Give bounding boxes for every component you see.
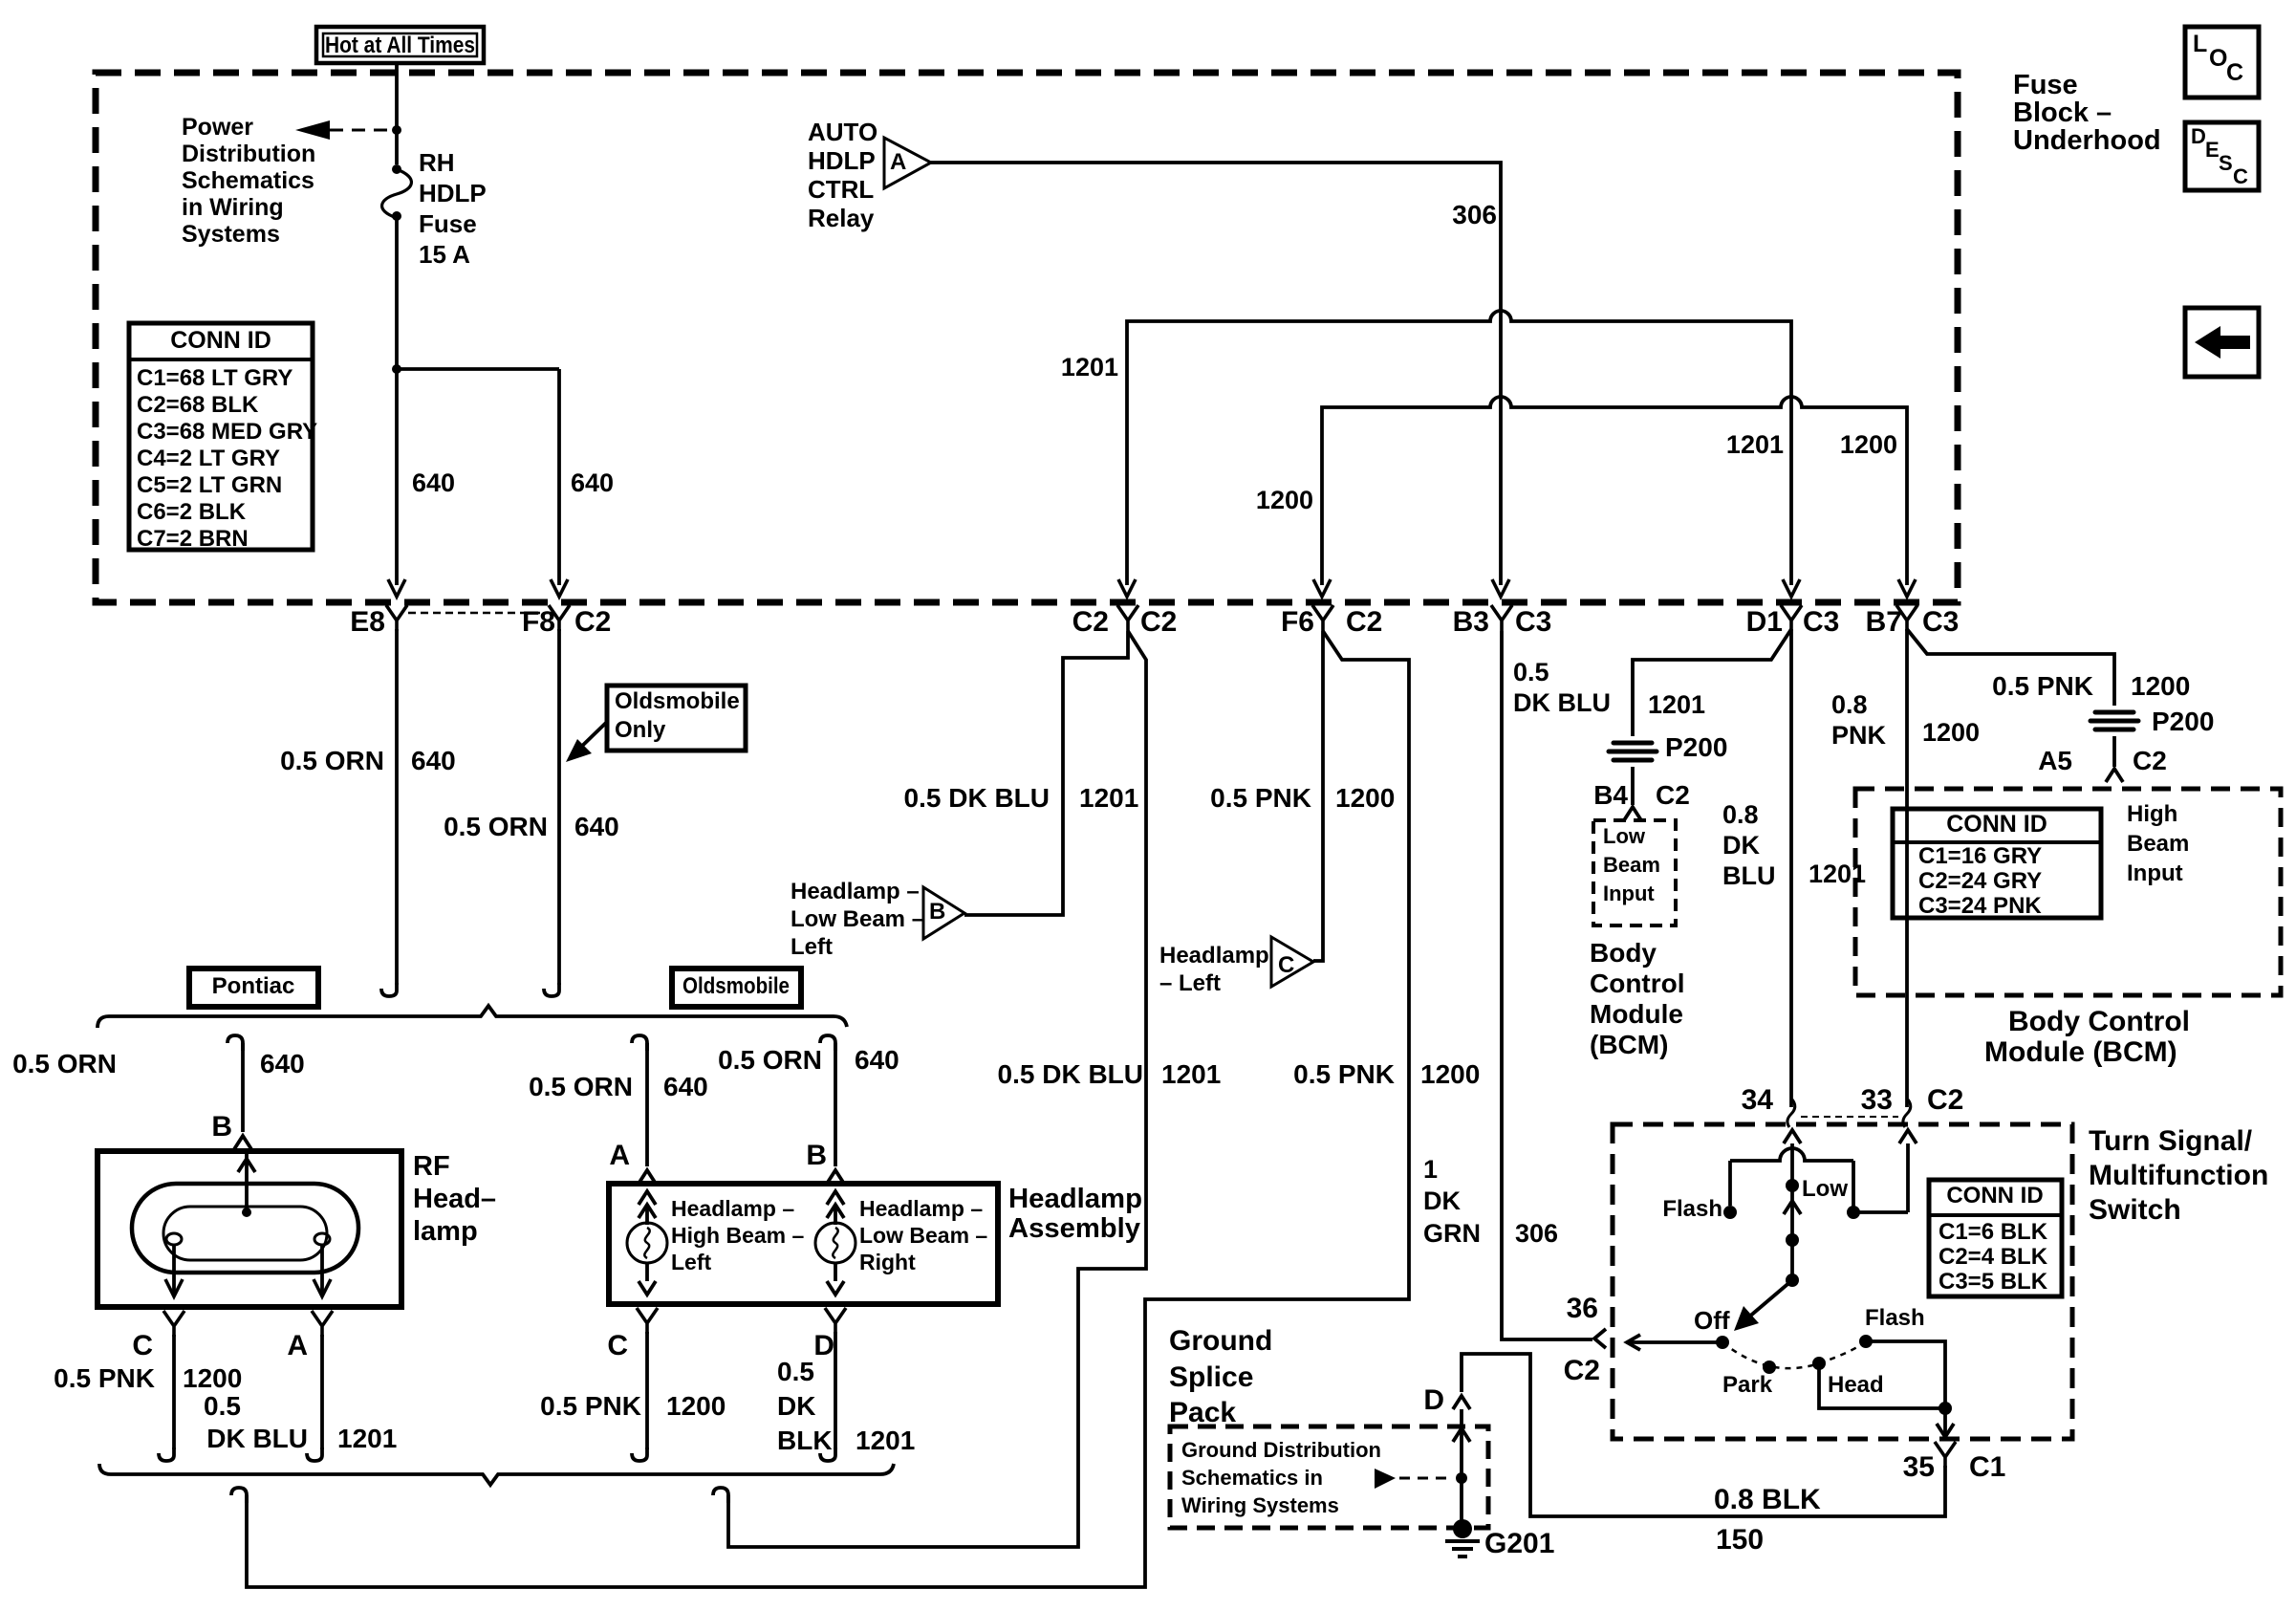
wire 640 inside fuse block (left leg) xyxy=(395,216,399,585)
svg-text:D: D xyxy=(1423,1384,1444,1416)
svg-text:Headlamp: Headlamp xyxy=(1008,1184,1142,1214)
svg-text:Distribution: Distribution xyxy=(182,141,315,167)
connector B7 | C3 xyxy=(1896,605,1917,631)
wire 0.5 PNK 1200 from assembly C xyxy=(645,1332,649,1449)
contact: Park xyxy=(1763,1361,1776,1374)
svg-text:Low Beam –: Low Beam – xyxy=(859,1223,987,1248)
reference triangle C: Headlamp - Left xyxy=(1271,937,1313,987)
svg-text:Wiring Systems: Wiring Systems xyxy=(1181,1493,1339,1517)
svg-text:Only: Only xyxy=(615,717,666,743)
svg-text:0.8: 0.8 xyxy=(1722,800,1759,829)
BCM Low Beam Input (dashed box) xyxy=(1593,820,1676,925)
svg-text:Headlamp –: Headlamp – xyxy=(859,1196,983,1221)
connector C at headlamp assembly xyxy=(637,1308,658,1334)
CONN ID table (fuse block) xyxy=(129,323,313,550)
svg-text:0.5 PNK: 0.5 PNK xyxy=(1210,783,1311,813)
wire 1201 inside fuse block xyxy=(1127,311,1791,585)
wire from Off contact to pin 36 xyxy=(1629,1340,1722,1344)
svg-text:640: 640 xyxy=(411,746,456,775)
splice brace (640 feed to Pontiac/Oldsmobile lamps) xyxy=(97,1006,847,1028)
connector A5 | C2 at BCM xyxy=(2106,769,2123,782)
wire 0.5 ORN 640 to RF headlamp B xyxy=(227,1035,243,1051)
svg-text:Underhood: Underhood xyxy=(2013,125,2161,156)
svg-text:Schematics in: Schematics in xyxy=(1181,1466,1323,1490)
svg-text:306: 306 xyxy=(1452,200,1497,229)
svg-text:C2=24 GRY: C2=24 GRY xyxy=(1918,868,2042,894)
svg-text:640: 640 xyxy=(260,1049,305,1078)
svg-text:1200: 1200 xyxy=(1256,486,1313,514)
svg-text:0.5 ORN: 0.5 ORN xyxy=(12,1049,117,1078)
svg-text:Block –: Block – xyxy=(2013,98,2112,128)
svg-text:C2: C2 xyxy=(574,606,611,638)
connector D at headlamp assembly xyxy=(825,1308,846,1334)
svg-text:0.5 ORN: 0.5 ORN xyxy=(529,1072,633,1101)
svg-text:Headlamp –: Headlamp – xyxy=(671,1196,794,1221)
splice brace (headlamp returns) xyxy=(99,1464,894,1485)
wire 0.5 DK BLU 1201 from RF headlamp A xyxy=(320,1335,324,1449)
connector B4 | C2 at BCM xyxy=(1624,807,1641,820)
wire 0.5 PNK 1200 net (F6/C2 to headlamps) xyxy=(247,631,1409,1587)
svg-text:33: 33 xyxy=(1861,1084,1893,1116)
svg-text:HDLP: HDLP xyxy=(419,179,487,207)
svg-text:RH: RH xyxy=(419,148,455,177)
svg-text:A: A xyxy=(890,149,906,175)
svg-text:0.5 DK BLU: 0.5 DK BLU xyxy=(998,1059,1143,1089)
svg-text:C2=4 BLK: C2=4 BLK xyxy=(1939,1244,2048,1270)
svg-text:Oldsmobile: Oldsmobile xyxy=(682,973,790,999)
svg-text:Fuse: Fuse xyxy=(2013,70,2078,100)
wire 0.8 BLK 150 to ground splice pack xyxy=(1462,1354,1945,1516)
wire 0.5 PNK 1200 from RF headlamp C xyxy=(172,1335,176,1449)
svg-text:640: 640 xyxy=(663,1072,708,1101)
svg-text:Headlamp –: Headlamp – xyxy=(791,879,920,904)
svg-text:1200: 1200 xyxy=(1335,783,1395,813)
svg-text:C: C xyxy=(132,1330,153,1361)
svg-text:34: 34 xyxy=(1742,1084,1774,1116)
svg-text:Hot at All Times: Hot at All Times xyxy=(325,33,475,58)
svg-text:Pontiac: Pontiac xyxy=(212,973,295,999)
svg-text:DK BLU: DK BLU xyxy=(206,1424,308,1453)
svg-text:Beam: Beam xyxy=(2127,831,2189,857)
svg-text:0.5 ORN: 0.5 ORN xyxy=(718,1045,822,1075)
svg-text:C4=2 LT GRY: C4=2 LT GRY xyxy=(137,446,280,471)
svg-text:Module: Module xyxy=(1590,999,1683,1029)
svg-text:C2: C2 xyxy=(1927,1084,1963,1116)
wire 0.5 ORN 640 to headlamp assembly B xyxy=(820,1035,835,1051)
svg-text:A5: A5 xyxy=(2038,746,2072,775)
svg-text:Pack: Pack xyxy=(1169,1397,1236,1428)
dimmer wiper arm xyxy=(1790,1186,1794,1247)
wire branch to Headlamp Low Beam Left reference xyxy=(964,631,1128,915)
svg-text:Input: Input xyxy=(2127,860,2183,886)
connector C at RF headlamp xyxy=(163,1311,184,1337)
svg-text:D1: D1 xyxy=(1746,606,1783,638)
svg-text:S: S xyxy=(2219,151,2233,175)
svg-text:– Left: – Left xyxy=(1159,970,1221,996)
svg-text:E8: E8 xyxy=(350,606,385,638)
connector pin 36 / C2 (switch) xyxy=(1594,1329,1606,1348)
connector A at RF headlamp xyxy=(312,1311,333,1337)
svg-text:C6=2 BLK: C6=2 BLK xyxy=(137,499,247,525)
dashed reference arrow (ground distribution) xyxy=(1375,1469,1396,1489)
connector B3 | C3 xyxy=(1491,605,1512,631)
dashed link between E8 and F8 terminals xyxy=(408,612,548,615)
wire 0.8 DK BLU 1201 from D1 to switch pin 34 xyxy=(1789,629,1793,1107)
svg-text:0.5 DK BLU: 0.5 DK BLU xyxy=(904,783,1050,813)
connector F6 | C2 xyxy=(1312,605,1333,631)
svg-text:CONN ID: CONN ID xyxy=(1946,811,2047,838)
svg-text:Schematics: Schematics xyxy=(182,167,314,194)
svg-text:CONN ID: CONN ID xyxy=(170,327,271,354)
svg-text:0.5: 0.5 xyxy=(1513,658,1549,686)
wire 1 DK GRN 306 from B3 to multifunction switch xyxy=(1502,631,1592,1339)
Turn Signal / Multifunction Switch (dashed box) xyxy=(1613,1124,2072,1439)
svg-text:Assembly: Assembly xyxy=(1008,1213,1140,1244)
junction at pin 33 wire xyxy=(1847,1206,1860,1219)
connector C2 | C2 xyxy=(1117,605,1138,631)
svg-text:Beam: Beam xyxy=(1603,853,1660,877)
RF headlamp dual-filament bulb (inner shell) xyxy=(163,1207,327,1260)
svg-text:F8: F8 xyxy=(522,606,555,638)
svg-text:Multifunction: Multifunction xyxy=(2089,1160,2268,1191)
switch pin 33 entry arrow xyxy=(1906,1143,1910,1212)
contact: Low xyxy=(1786,1179,1799,1192)
svg-text:C2: C2 xyxy=(1140,606,1177,638)
reference triangle B: Headlamp - Low Beam - Left xyxy=(923,887,964,939)
contact: Flash (headlamp) xyxy=(1859,1335,1873,1348)
svg-text:C2=68 BLK: C2=68 BLK xyxy=(137,392,259,418)
svg-text:1200: 1200 xyxy=(1840,430,1897,459)
svg-text:Module (BCM): Module (BCM) xyxy=(1984,1036,2177,1068)
junction node in splice pack xyxy=(1456,1472,1467,1484)
svg-text:Body Control: Body Control xyxy=(2008,1006,2190,1037)
svg-text:F6: F6 xyxy=(1281,606,1314,638)
svg-text:E: E xyxy=(2205,138,2220,162)
contact: Flash (dimmer) xyxy=(1723,1206,1737,1219)
RF headlamp feed wire + terminal arrow xyxy=(245,1151,249,1212)
svg-text:C3=68 MED GRY: C3=68 MED GRY xyxy=(137,419,317,445)
svg-text:1200: 1200 xyxy=(1922,718,1980,747)
wire from Flash contact down to pin 35 xyxy=(1866,1341,1945,1408)
svg-text:DK BLU: DK BLU xyxy=(1513,688,1611,717)
svg-text:640: 640 xyxy=(574,812,619,841)
ground wire into splice pack xyxy=(1460,1409,1463,1521)
CONN ID table (multifunction switch) xyxy=(1929,1180,2062,1296)
svg-text:HDLP: HDLP xyxy=(808,146,876,175)
svg-text:Power: Power xyxy=(182,114,253,141)
svg-text:C1=68 LT GRY: C1=68 LT GRY xyxy=(137,365,292,391)
wire 1200 inside fuse block xyxy=(1322,397,1907,585)
svg-text:C3=24 PNK: C3=24 PNK xyxy=(1918,893,2042,919)
svg-text:DK: DK xyxy=(1722,831,1760,860)
svg-text:B7: B7 xyxy=(1866,606,1902,638)
svg-text:C5=2 LT GRN: C5=2 LT GRN xyxy=(137,472,282,498)
wire 0.8 PNK 1200 from B7 to switch pin 33 xyxy=(1905,629,1909,1107)
svg-text:C2: C2 xyxy=(2133,746,2167,775)
Body Control Module BCM (dashed box) xyxy=(1855,789,2281,995)
label box: Pontiac xyxy=(189,969,318,1007)
svg-text:1200: 1200 xyxy=(666,1391,726,1421)
headlamp switch wiper arrow xyxy=(1742,1280,1792,1323)
svg-text:0.5: 0.5 xyxy=(777,1357,814,1386)
Headlamp Assembly housing box xyxy=(609,1184,998,1304)
filament terminal loop (right) xyxy=(314,1233,330,1245)
svg-text:1201: 1201 xyxy=(1648,690,1705,719)
label box: Oldsmobile xyxy=(672,969,801,1007)
wire from Head contact xyxy=(1819,1363,1945,1408)
svg-text:B: B xyxy=(929,899,945,925)
svg-text:1201: 1201 xyxy=(1161,1059,1221,1089)
wire 640 branch to F8 xyxy=(397,369,559,585)
svg-text:C2: C2 xyxy=(1346,606,1382,638)
connector pin 35 / C1 (switch) xyxy=(1935,1442,1956,1468)
svg-text:0.8: 0.8 xyxy=(1831,690,1868,719)
svg-text:Ground: Ground xyxy=(1169,1325,1272,1357)
svg-text:Park: Park xyxy=(1722,1372,1773,1398)
note box: Oldsmobile Only xyxy=(607,686,746,751)
svg-text:PNK: PNK xyxy=(1831,721,1887,750)
RF headlamp output wire C (inside box) xyxy=(172,1245,176,1296)
svg-text:B4: B4 xyxy=(1593,780,1628,810)
svg-text:P200: P200 xyxy=(2152,707,2214,736)
splice P200 (low beam) xyxy=(1609,743,1657,760)
svg-text:C: C xyxy=(1278,952,1294,978)
wire 0.5 DK BLU 1201 net (C2/C2 to headlamps) xyxy=(728,631,1146,1547)
svg-text:1200: 1200 xyxy=(2131,671,2190,701)
contact: Head xyxy=(1812,1357,1826,1370)
svg-text:Oldsmobile: Oldsmobile xyxy=(615,688,740,714)
LOC reference box xyxy=(2185,27,2259,98)
svg-text:D: D xyxy=(2191,124,2206,148)
svg-text:Low: Low xyxy=(1603,824,1646,848)
svg-text:15 A: 15 A xyxy=(419,240,470,269)
svg-text:0.5 PNK: 0.5 PNK xyxy=(1293,1059,1395,1089)
RF headlamp dual-filament bulb (outer shell) xyxy=(132,1184,358,1273)
svg-text:C3: C3 xyxy=(1922,606,1959,638)
junction node at fuse feed xyxy=(392,125,401,135)
svg-text:Head–: Head– xyxy=(413,1184,496,1214)
svg-text:0.5 PNK: 0.5 PNK xyxy=(54,1363,155,1393)
Ground Splice Pack (dashed box) xyxy=(1170,1426,1488,1528)
svg-text:150: 150 xyxy=(1716,1524,1764,1556)
svg-text:C2: C2 xyxy=(1564,1355,1600,1386)
svg-text:B: B xyxy=(806,1140,827,1171)
svg-text:B3: B3 xyxy=(1453,606,1489,638)
svg-text:Splice: Splice xyxy=(1169,1361,1253,1393)
splice P200 (high beam) xyxy=(2090,712,2138,729)
svg-text:CONN ID: CONN ID xyxy=(1946,1183,2043,1208)
svg-text:Low: Low xyxy=(1802,1176,1848,1202)
svg-text:BLU: BLU xyxy=(1722,861,1776,890)
svg-text:640: 640 xyxy=(855,1045,899,1075)
connector F8 / C2 (fuse block) xyxy=(549,605,570,631)
svg-text:35: 35 xyxy=(1903,1451,1935,1483)
wire 0.5 ORN 640 from F8 (Oldsmobile only) xyxy=(557,629,561,985)
svg-text:1200: 1200 xyxy=(183,1363,242,1393)
svg-text:Input: Input xyxy=(1603,882,1655,905)
svg-text:GRN: GRN xyxy=(1423,1219,1481,1248)
label: Hot at All Times xyxy=(316,27,484,63)
svg-text:D: D xyxy=(813,1330,834,1361)
DESC reference box xyxy=(2185,122,2259,190)
svg-text:High Beam –: High Beam – xyxy=(671,1223,805,1248)
svg-text:Off: Off xyxy=(1694,1306,1730,1335)
svg-text:P200: P200 xyxy=(1665,732,1727,762)
svg-text:C2: C2 xyxy=(1656,780,1690,810)
dashed reference arrow to power distribution xyxy=(295,120,330,140)
wire 0.5 PNK 1200 from B7 to BCM via P200 xyxy=(1907,629,2114,706)
svg-text:C1: C1 xyxy=(1969,1451,2005,1483)
svg-text:C: C xyxy=(2233,164,2248,188)
contact: Off xyxy=(1716,1336,1729,1349)
svg-text:Systems: Systems xyxy=(182,221,280,248)
svg-text:Relay: Relay xyxy=(808,204,875,232)
svg-text:(BCM): (BCM) xyxy=(1590,1030,1668,1059)
svg-text:Turn Signal/: Turn Signal/ xyxy=(2089,1125,2253,1157)
wire 306 from relay A xyxy=(931,163,1501,585)
svg-text:0.5 PNK: 0.5 PNK xyxy=(1992,671,2093,701)
svg-text:G201: G201 xyxy=(1484,1528,1554,1559)
svg-text:C3: C3 xyxy=(1803,606,1839,638)
wire 0.5 ORN 640 from E8 xyxy=(395,629,399,985)
junction node inside RF headlamp xyxy=(242,1208,251,1217)
svg-text:1: 1 xyxy=(1423,1155,1438,1184)
wire from P200 to BCM terminal B4 xyxy=(1631,767,1635,805)
svg-text:C: C xyxy=(607,1330,628,1361)
switch pin 34 entry arrow xyxy=(1790,1143,1794,1186)
svg-text:C3: C3 xyxy=(1515,606,1551,638)
svg-text:Low Beam –: Low Beam – xyxy=(791,906,924,932)
svg-text:Left: Left xyxy=(671,1250,712,1274)
fuse F: RH HDLP Fuse 15 A xyxy=(395,130,399,164)
svg-text:High: High xyxy=(2127,801,2177,827)
svg-text:Flash: Flash xyxy=(1865,1305,1925,1331)
svg-text:1201: 1201 xyxy=(1079,783,1138,813)
svg-text:L: L xyxy=(2193,31,2207,57)
wire from F6 to Headlamp Left reference xyxy=(1313,631,1323,961)
svg-text:Ground Distribution: Ground Distribution xyxy=(1181,1438,1381,1462)
svg-text:Right: Right xyxy=(859,1250,916,1274)
back-arrow reference box xyxy=(2185,308,2259,377)
svg-text:Control: Control xyxy=(1590,969,1685,998)
svg-text:36: 36 xyxy=(1567,1293,1598,1324)
svg-text:AUTO: AUTO xyxy=(808,118,877,146)
filament terminal loop (left) xyxy=(166,1233,182,1245)
RF headlamp output wire A (inside box) xyxy=(320,1245,324,1296)
svg-text:C7=2 BRN: C7=2 BRN xyxy=(137,526,249,552)
svg-text:DK: DK xyxy=(777,1391,815,1421)
svg-text:1201: 1201 xyxy=(1061,353,1118,381)
svg-text:O: O xyxy=(2209,45,2227,72)
svg-text:Switch: Switch xyxy=(2089,1194,2181,1226)
RF Headlamp housing box xyxy=(97,1151,401,1307)
svg-text:A: A xyxy=(287,1330,308,1361)
svg-text:1201: 1201 xyxy=(337,1424,397,1453)
svg-text:B: B xyxy=(211,1111,232,1143)
wire: battery feed into fuse block xyxy=(395,63,399,128)
wire from P200 to BCM terminal A5 xyxy=(2112,736,2116,767)
connector E8 (fuse block) xyxy=(386,605,407,631)
svg-text:640: 640 xyxy=(571,468,614,497)
svg-text:CTRL: CTRL xyxy=(808,175,874,204)
svg-text:306: 306 xyxy=(1515,1219,1558,1248)
svg-text:C1=16 GRY: C1=16 GRY xyxy=(1918,843,2042,869)
connector D1 | C3 xyxy=(1781,605,1802,631)
svg-text:0.8 BLK: 0.8 BLK xyxy=(1714,1484,1821,1515)
switch internal crossover (flash/low) xyxy=(1730,1148,1853,1161)
svg-text:1201: 1201 xyxy=(856,1426,915,1455)
svg-text:Head: Head xyxy=(1828,1372,1884,1398)
switch position dashed arc Off-Park-Head-Flash xyxy=(1722,1341,1866,1368)
svg-text:1201: 1201 xyxy=(1726,430,1784,459)
svg-text:1200: 1200 xyxy=(1420,1059,1480,1089)
junction node above pin 35 xyxy=(1939,1402,1952,1415)
svg-text:A: A xyxy=(609,1140,630,1171)
fuse block - underhood (dashed boundary) xyxy=(96,73,1958,602)
wire 0.5 DK BLU 1201 from D1 to BCM via P200 xyxy=(1633,629,1791,736)
arrow from Oldsmobile Only note to wire xyxy=(577,721,608,751)
svg-text:lamp: lamp xyxy=(413,1216,478,1247)
svg-text:Fuse: Fuse xyxy=(419,209,477,238)
svg-text:DK: DK xyxy=(1423,1186,1461,1215)
svg-text:Body: Body xyxy=(1590,938,1657,968)
svg-text:0.5 ORN: 0.5 ORN xyxy=(444,812,548,841)
svg-text:0.5 ORN: 0.5 ORN xyxy=(280,746,384,775)
junction node fuse output xyxy=(392,364,401,374)
svg-text:C2: C2 xyxy=(1072,606,1109,638)
bulb: Headlamp Low Beam Right xyxy=(834,1205,837,1225)
svg-text:Flash: Flash xyxy=(1662,1196,1722,1222)
bulb: Headlamp High Beam Left xyxy=(645,1205,649,1225)
svg-text:640: 640 xyxy=(412,468,455,497)
svg-text:C1=6 BLK: C1=6 BLK xyxy=(1939,1219,2048,1245)
svg-text:C: C xyxy=(2226,59,2243,86)
svg-text:0.5 PNK: 0.5 PNK xyxy=(540,1391,641,1421)
svg-text:C3=5 BLK: C3=5 BLK xyxy=(1939,1269,2048,1295)
CONN ID table (BCM) xyxy=(1893,809,2101,918)
svg-text:0.5: 0.5 xyxy=(204,1391,241,1421)
wire 0.5 ORN 640 to headlamp assembly A xyxy=(632,1035,647,1051)
svg-text:in Wiring: in Wiring xyxy=(182,194,284,221)
svg-text:Left: Left xyxy=(791,934,833,960)
wire 0.5 DK BLK 1201 from assembly D xyxy=(834,1332,837,1449)
svg-text:RF: RF xyxy=(413,1151,450,1182)
svg-text:Headlamp: Headlamp xyxy=(1159,943,1269,969)
connector D at ground splice pack xyxy=(1453,1396,1470,1409)
ground G201 xyxy=(1453,1519,1472,1538)
svg-text:BLK: BLK xyxy=(777,1426,833,1455)
